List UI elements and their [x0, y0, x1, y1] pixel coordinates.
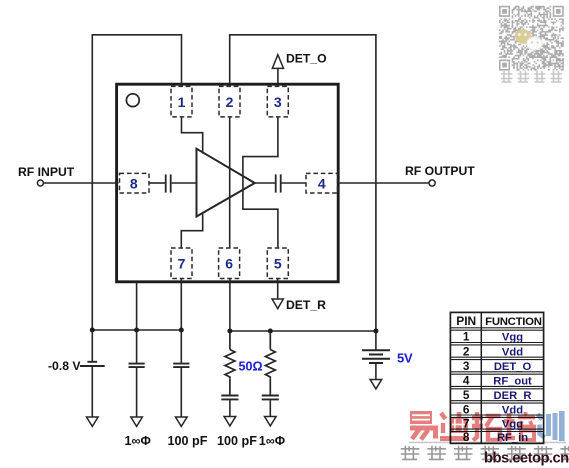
PIN/FUNCTION table	[450, 312, 543, 443]
pin 7 dashed box	[171, 248, 192, 279]
pin 6 dashed box	[219, 248, 240, 279]
capacitor C6 (shunt 1uF)	[262, 396, 279, 417]
node: RF INPUT terminal	[37, 180, 43, 186]
wire: pin2 loop to right rail	[230, 35, 376, 331]
svg-text:5: 5	[463, 388, 470, 402]
svg-text:6: 6	[225, 255, 233, 271]
battery V1 -0.8V	[80, 330, 105, 417]
resistor R1 50 ohm	[225, 331, 235, 395]
svg-text:RF_out: RF_out	[493, 376, 532, 388]
junction dots	[90, 328, 379, 334]
pin numbers	[130, 94, 326, 271]
capacitor C2 (series output)	[276, 174, 281, 192]
watermark layer	[401, 411, 569, 467]
svg-text:5: 5	[274, 255, 282, 271]
svg-text:-0.8 V: -0.8 V	[48, 359, 81, 373]
capacitor C1 (series input)	[166, 174, 171, 192]
wire: pin6 stub down to right bus	[229, 279, 231, 332]
wire: left bus	[92, 329, 181, 331]
svg-text:PIN: PIN	[456, 314, 476, 328]
node: RF OUTPUT terminal	[429, 180, 435, 186]
svg-text:3: 3	[463, 359, 470, 373]
wire: amp output to C2	[255, 182, 275, 184]
DET_R arrow (down)	[272, 299, 283, 309]
wire: right bus	[230, 330, 376, 332]
svg-text:RF INPUT: RF INPUT	[18, 165, 75, 179]
wire: pin7 stub down to left bus	[180, 279, 182, 331]
watermark underline	[409, 441, 566, 443]
svg-text:100 pF: 100 pF	[217, 434, 257, 448]
svg-text:100 pF: 100 pF	[168, 434, 208, 448]
wire: pin3 stub to DET_O	[277, 69, 279, 87]
ground G4	[224, 417, 236, 426]
caption: wei-xin-lian-xi	[501, 71, 513, 82]
svg-text:Vgg: Vgg	[502, 332, 523, 344]
IC package U1 outline	[117, 84, 339, 282]
battery V2 5V	[362, 331, 390, 380]
svg-text:DET_O: DET_O	[494, 361, 532, 373]
wechat icon in QR center	[515, 29, 542, 50]
svg-text:RF OUTPUT: RF OUTPUT	[405, 164, 475, 178]
watermark char tuo (red)	[472, 412, 501, 441]
svg-text:1∞Φ: 1∞Φ	[259, 434, 285, 448]
svg-text:5V: 5V	[397, 350, 413, 365]
footer caption gray CJK	[401, 446, 569, 461]
pin 3 dashed box	[267, 86, 288, 117]
wire: package stub down to left bus	[136, 283, 138, 330]
wire: pin8 to C1	[149, 182, 165, 184]
wire: RF input lead	[43, 182, 118, 184]
svg-text:DET_R: DET_R	[286, 298, 326, 312]
svg-text:4: 4	[463, 374, 470, 388]
svg-text:8: 8	[130, 175, 138, 191]
capacitor C4 (shunt 100pF)	[173, 330, 189, 417]
capacitor C5 (shunt 100pF)	[221, 396, 238, 417]
svg-text:DET_O: DET_O	[286, 52, 327, 66]
op-amp U1A triangle	[197, 149, 255, 217]
svg-text:1: 1	[463, 330, 470, 344]
wire: pin5 stub to DET_R	[277, 279, 279, 300]
svg-text:Vdd: Vdd	[502, 404, 523, 416]
ground G3	[176, 417, 188, 426]
svg-text:7: 7	[178, 255, 186, 271]
watermark char pei (red)	[504, 412, 536, 440]
QR code pattern	[499, 6, 564, 71]
svg-text:6: 6	[463, 402, 470, 416]
watermark char di (red)	[440, 412, 469, 439]
pin 4 dashed box	[306, 173, 338, 193]
pin 8 dashed box	[120, 173, 150, 193]
svg-text:DER_R: DER_R	[494, 390, 532, 402]
wire: pin1 internal stepped	[182, 117, 203, 154]
ground G6	[370, 380, 382, 389]
svg-text:2: 2	[226, 94, 234, 110]
svg-text:50Ω: 50Ω	[239, 360, 263, 374]
DET_O arrow (up)	[272, 55, 283, 69]
wire: pin2 internal vertical	[229, 117, 231, 248]
wire: pin3 to pin5 internal S-bend	[243, 117, 278, 248]
svg-text:bbs.eetop.cn: bbs.eetop.cn	[484, 451, 569, 467]
pin 2 dashed box	[219, 86, 240, 117]
wire: pin1 loop to left rail	[92, 35, 181, 330]
svg-text:Vdd: Vdd	[502, 346, 523, 358]
pin 1 dashed box	[120, 86, 338, 278]
wire: RF output lead	[338, 182, 429, 184]
svg-text:FUNCTION: FUNCTION	[485, 316, 542, 328]
watermark char yi (red)	[410, 411, 438, 440]
ground G1	[87, 417, 99, 426]
svg-text:4: 4	[318, 175, 326, 191]
wire: C1 to amplifier input	[172, 182, 197, 184]
wire: pin7 internal stepped	[181, 213, 202, 248]
ground G5	[265, 417, 277, 426]
pin-1 index circle	[126, 94, 139, 107]
resistor R2 50 ohm	[265, 331, 275, 395]
capacitor C3 (shunt 1uF)	[129, 330, 145, 417]
svg-text:3: 3	[274, 94, 282, 110]
svg-text:1: 1	[178, 94, 186, 110]
ground G2	[131, 417, 143, 426]
pin 5 dashed box	[267, 248, 288, 279]
svg-text:1∞Φ: 1∞Φ	[125, 434, 151, 448]
wire: C2 to pin4	[282, 182, 307, 184]
watermark char xun (blue)	[538, 411, 562, 441]
svg-text:2: 2	[463, 344, 470, 358]
